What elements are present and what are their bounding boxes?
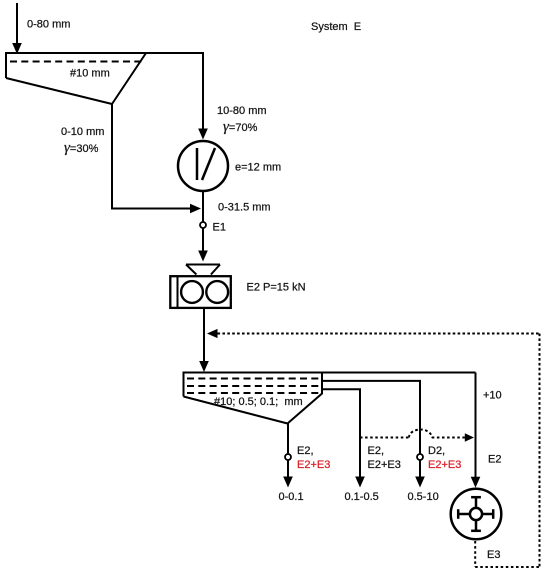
svg-text:#10; 0.5; 0.1; mm: #10; 0.5; 0.1; mm — [214, 396, 303, 408]
svg-text:0-0.1: 0-0.1 — [279, 491, 304, 503]
svg-text:E2 P=15 kN: E2 P=15 kN — [247, 282, 306, 294]
svg-text:#10 mm: #10 mm — [70, 68, 110, 80]
svg-text:E2+E3: E2+E3 — [428, 459, 461, 471]
svg-text:E2,: E2, — [368, 445, 385, 457]
svg-text:0.5-10: 0.5-10 — [408, 491, 439, 503]
svg-text:E2,: E2, — [297, 445, 314, 457]
svg-text:0-10 mm: 0-10 mm — [61, 126, 104, 138]
svg-text:γ=70%: γ=70% — [223, 119, 258, 135]
svg-text:E1: E1 — [213, 222, 226, 234]
svg-text:0-80 mm: 0-80 mm — [27, 19, 70, 31]
svg-text:0.1-0.5: 0.1-0.5 — [345, 491, 379, 503]
svg-text:D2,: D2, — [428, 445, 445, 457]
svg-text:10-80 mm: 10-80 mm — [217, 105, 267, 117]
svg-text:E2+E3: E2+E3 — [368, 459, 401, 471]
svg-text:E2+E3: E2+E3 — [297, 459, 330, 471]
svg-text:0-31.5 mm: 0-31.5 mm — [218, 202, 271, 214]
svg-text:+10: +10 — [483, 390, 502, 402]
svg-text:E3: E3 — [487, 549, 500, 561]
svg-text:γ=30%: γ=30% — [64, 140, 99, 156]
svg-text:System E: System E — [311, 21, 361, 33]
svg-text:e=12 mm: e=12 mm — [235, 162, 281, 174]
svg-text:E2: E2 — [488, 453, 501, 465]
